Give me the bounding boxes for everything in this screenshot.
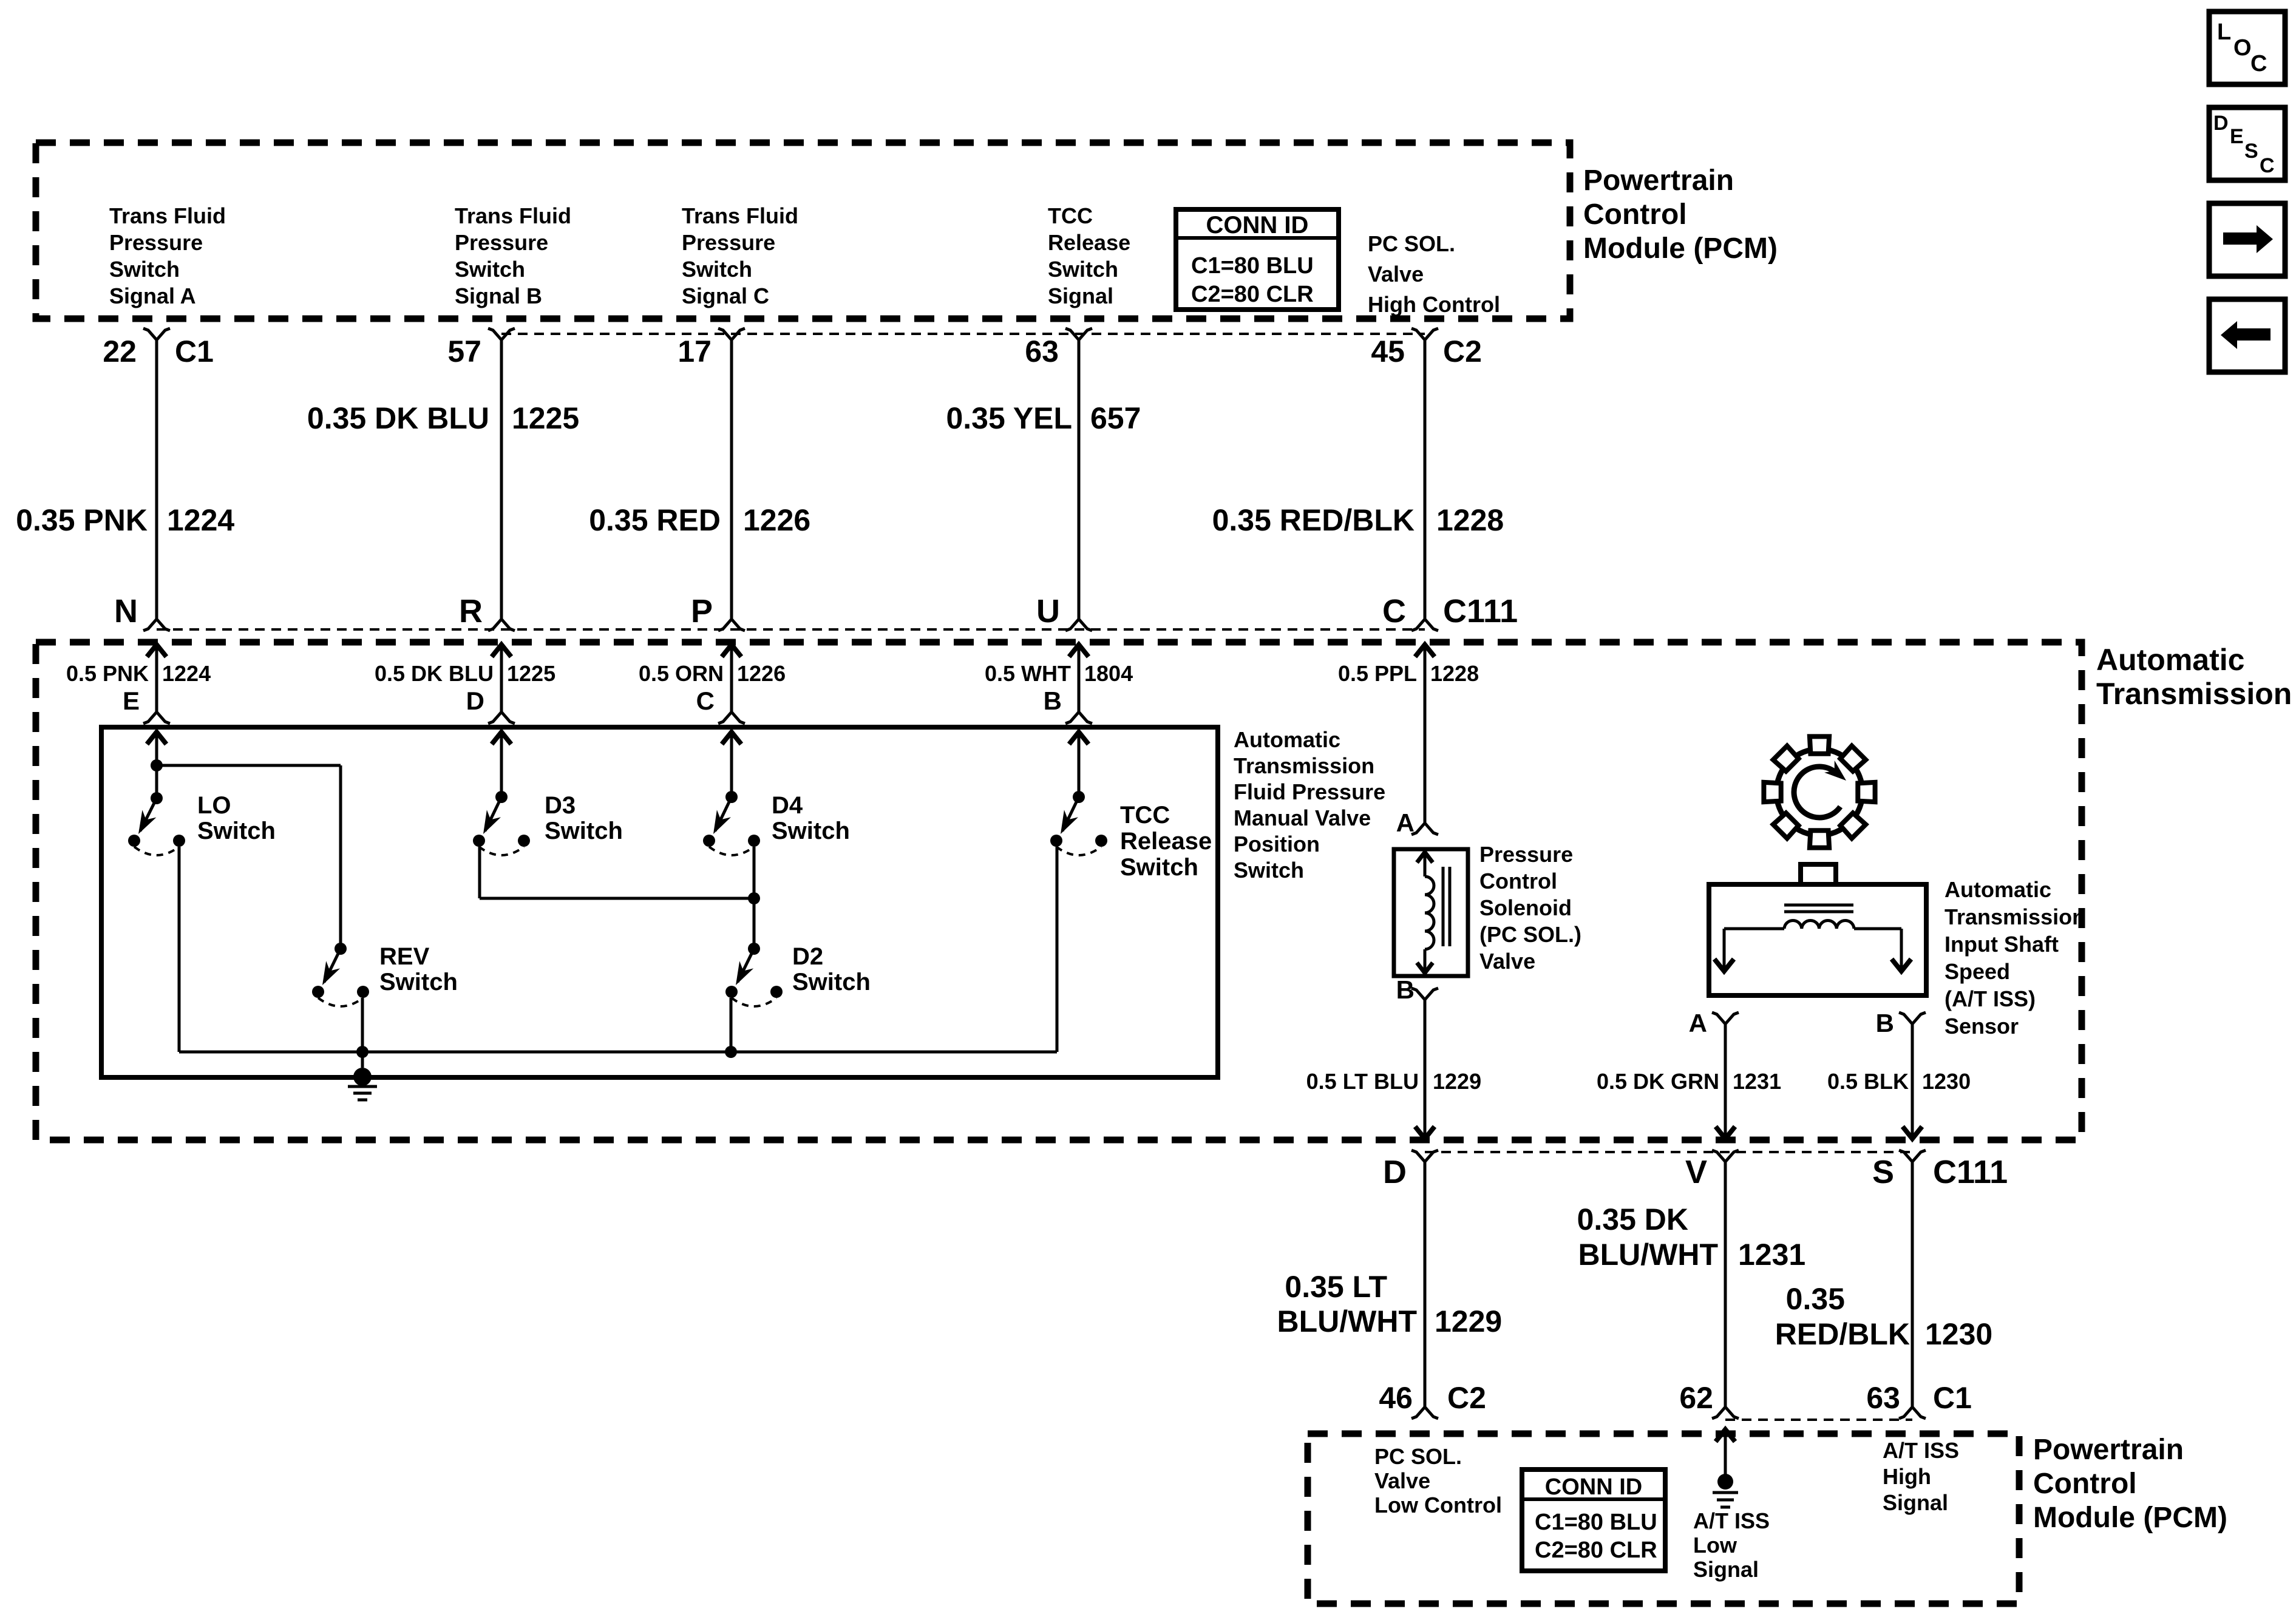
svg-text:0.35 YEL: 0.35 YEL	[946, 401, 1072, 435]
svg-text:Signal A: Signal A	[109, 283, 196, 308]
svg-text:C: C	[1382, 593, 1406, 629]
svg-text:D: D	[1383, 1154, 1407, 1190]
svg-text:63: 63	[1866, 1381, 1900, 1415]
svg-text:Position: Position	[1234, 832, 1320, 856]
svg-text:0.5 PNK: 0.5 PNK	[66, 661, 149, 686]
svg-text:0.35 DK: 0.35 DK	[1577, 1202, 1688, 1236]
svg-text:Pressure: Pressure	[682, 230, 775, 255]
svg-text:A/T ISS: A/T ISS	[1883, 1438, 1959, 1463]
svg-text:1226: 1226	[743, 503, 810, 537]
svg-text:B: B	[1044, 686, 1062, 715]
svg-text:U: U	[1036, 593, 1060, 629]
svg-text:0.35 RED/BLK: 0.35 RED/BLK	[1212, 503, 1415, 537]
svg-text:Switch: Switch	[109, 257, 180, 282]
svg-text:D2: D2	[792, 943, 823, 970]
svg-text:1228: 1228	[1436, 503, 1504, 537]
svg-text:TCC: TCC	[1048, 203, 1093, 228]
svg-text:Switch: Switch	[772, 818, 850, 844]
svg-text:1231: 1231	[1738, 1238, 1805, 1272]
svg-text:High Control: High Control	[1368, 292, 1500, 317]
svg-text:Release: Release	[1048, 230, 1130, 255]
svg-text:A/T ISS: A/T ISS	[1693, 1508, 1770, 1533]
svg-text:Low Control: Low Control	[1374, 1493, 1502, 1517]
svg-text:Manual Valve: Manual Valve	[1234, 805, 1371, 830]
svg-text:S: S	[1872, 1154, 1894, 1190]
svg-text:Switch: Switch	[682, 257, 752, 282]
svg-text:TCC: TCC	[1120, 802, 1170, 829]
svg-text:Switch: Switch	[545, 818, 623, 844]
svg-text:Release: Release	[1120, 828, 1212, 855]
svg-text:Automatic: Automatic	[1234, 727, 1340, 752]
svg-text:R: R	[459, 593, 483, 629]
svg-text:C1: C1	[175, 334, 214, 368]
svg-text:C111: C111	[1933, 1154, 2008, 1190]
svg-text:Input Shaft: Input Shaft	[1944, 932, 2059, 957]
svg-text:C2=80 CLR: C2=80 CLR	[1535, 1537, 1657, 1563]
svg-text:C: C	[2260, 154, 2275, 177]
svg-text:0.5 WHT: 0.5 WHT	[985, 661, 1071, 686]
svg-text:57: 57	[447, 334, 481, 368]
svg-text:1229: 1229	[1433, 1069, 1481, 1094]
svg-text:Signal: Signal	[1883, 1490, 1948, 1515]
svg-text:Switch: Switch	[455, 257, 525, 282]
svg-text:45: 45	[1371, 334, 1405, 368]
svg-text:E: E	[2230, 125, 2244, 148]
svg-text:Transmission: Transmission	[2096, 677, 2292, 711]
svg-text:Switch: Switch	[379, 969, 458, 995]
svg-text:Valve: Valve	[1479, 949, 1535, 974]
svg-text:Transmission: Transmission	[1234, 753, 1374, 778]
svg-text:1229: 1229	[1435, 1304, 1502, 1338]
svg-text:C: C	[696, 686, 715, 715]
svg-text:D3: D3	[545, 792, 576, 819]
svg-text:BLU/WHT: BLU/WHT	[1578, 1238, 1719, 1272]
svg-text:Pressure: Pressure	[455, 230, 548, 255]
svg-text:Signal C: Signal C	[682, 283, 769, 308]
svg-text:1225: 1225	[512, 401, 579, 435]
svg-text:Speed: Speed	[1944, 959, 2010, 984]
svg-text:Low: Low	[1693, 1533, 1737, 1558]
svg-text:Control: Control	[1583, 198, 1687, 231]
svg-text:0.35 DK BLU: 0.35 DK BLU	[307, 401, 489, 435]
svg-text:Valve: Valve	[1374, 1468, 1430, 1493]
svg-text:High: High	[1883, 1464, 1931, 1489]
svg-text:PC SOL.: PC SOL.	[1368, 231, 1455, 256]
svg-text:A: A	[1396, 808, 1415, 837]
svg-text:0.5 DK GRN: 0.5 DK GRN	[1597, 1069, 1719, 1094]
svg-text:Signal: Signal	[1048, 283, 1113, 308]
svg-text:N: N	[114, 593, 138, 629]
svg-text:0.5 DK BLU: 0.5 DK BLU	[375, 661, 494, 686]
svg-text:D4: D4	[772, 792, 803, 819]
svg-text:Fluid Pressure: Fluid Pressure	[1234, 779, 1385, 804]
svg-text:22: 22	[103, 334, 137, 368]
svg-text:1224: 1224	[167, 503, 234, 537]
svg-text:1226: 1226	[737, 661, 786, 686]
svg-text:C111: C111	[1443, 593, 1518, 629]
svg-text:0.35 LT: 0.35 LT	[1285, 1270, 1387, 1304]
svg-text:63: 63	[1025, 334, 1059, 368]
svg-text:Switch: Switch	[792, 969, 871, 995]
svg-text:Solenoid: Solenoid	[1479, 895, 1572, 920]
svg-text:0.35 RED: 0.35 RED	[589, 503, 721, 537]
svg-text:Valve: Valve	[1368, 262, 1424, 286]
svg-text:C2=80 CLR: C2=80 CLR	[1191, 282, 1314, 307]
svg-text:Sensor: Sensor	[1944, 1014, 2019, 1039]
svg-text:Control: Control	[2033, 1468, 2137, 1500]
svg-text:1231: 1231	[1733, 1069, 1781, 1094]
svg-text:0.5 LT BLU: 0.5 LT BLU	[1306, 1069, 1419, 1094]
svg-text:(A/T ISS): (A/T ISS)	[1944, 986, 2036, 1011]
svg-text:B: B	[1876, 1009, 1894, 1037]
svg-text:PC SOL.: PC SOL.	[1374, 1444, 1462, 1469]
svg-text:D: D	[2213, 112, 2229, 135]
svg-text:0.35: 0.35	[1786, 1282, 1845, 1316]
svg-text:C: C	[2250, 51, 2267, 76]
svg-text:O: O	[2233, 35, 2252, 61]
svg-text:1804: 1804	[1084, 661, 1133, 686]
svg-text:Switch: Switch	[197, 818, 276, 844]
svg-text:Automatic: Automatic	[1944, 877, 2051, 902]
svg-text:0.5 ORN: 0.5 ORN	[639, 661, 724, 686]
svg-text:CONN ID: CONN ID	[1545, 1474, 1642, 1500]
svg-text:CONN ID: CONN ID	[1206, 212, 1309, 239]
svg-text:Control: Control	[1479, 869, 1557, 893]
svg-text:Switch: Switch	[1120, 854, 1198, 881]
svg-text:Transmission: Transmission	[1944, 904, 2085, 929]
svg-text:A: A	[1689, 1009, 1707, 1037]
svg-text:0.35 PNK: 0.35 PNK	[16, 503, 148, 537]
svg-text:Signal B: Signal B	[455, 283, 542, 308]
svg-text:RED/BLK: RED/BLK	[1775, 1317, 1910, 1351]
svg-text:1228: 1228	[1430, 661, 1479, 686]
svg-text:L: L	[2217, 19, 2231, 45]
svg-text:1230: 1230	[1922, 1069, 1971, 1094]
svg-text:REV: REV	[379, 943, 430, 970]
svg-text:E: E	[123, 686, 140, 715]
svg-text:17: 17	[678, 334, 712, 368]
svg-text:1224: 1224	[162, 661, 211, 686]
svg-text:C2: C2	[1447, 1381, 1486, 1415]
svg-text:Powertrain: Powertrain	[1583, 164, 1734, 197]
svg-text:LO: LO	[197, 792, 231, 819]
svg-text:Pressure: Pressure	[109, 230, 203, 255]
svg-text:Switch: Switch	[1048, 257, 1118, 282]
svg-text:BLU/WHT: BLU/WHT	[1277, 1304, 1418, 1338]
svg-text:C1=80 BLU: C1=80 BLU	[1191, 253, 1314, 279]
svg-text:C1: C1	[1933, 1381, 1972, 1415]
svg-text:Pressure: Pressure	[1479, 842, 1573, 867]
svg-text:Automatic: Automatic	[2096, 643, 2244, 677]
svg-text:(PC SOL.): (PC SOL.)	[1479, 922, 1581, 947]
svg-text:657: 657	[1090, 401, 1141, 435]
svg-text:Trans Fluid: Trans Fluid	[109, 203, 226, 228]
svg-text:D: D	[466, 686, 484, 715]
svg-text:C1=80 BLU: C1=80 BLU	[1535, 1510, 1657, 1535]
svg-text:Switch: Switch	[1234, 858, 1304, 883]
svg-text:1225: 1225	[507, 661, 555, 686]
svg-text:0.5 PPL: 0.5 PPL	[1338, 661, 1417, 686]
svg-text:C2: C2	[1443, 334, 1482, 368]
svg-text:0.5 BLK: 0.5 BLK	[1827, 1069, 1909, 1094]
svg-text:Powertrain: Powertrain	[2033, 1434, 2184, 1466]
svg-text:S: S	[2244, 140, 2258, 163]
svg-text:46: 46	[1379, 1381, 1413, 1415]
svg-text:Signal: Signal	[1693, 1557, 1759, 1582]
svg-text:V: V	[1685, 1154, 1707, 1190]
svg-text:Trans Fluid: Trans Fluid	[682, 203, 798, 228]
svg-text:62: 62	[1679, 1381, 1713, 1415]
svg-text:Module (PCM): Module (PCM)	[2033, 1502, 2227, 1534]
svg-text:P: P	[691, 593, 713, 629]
svg-text:Module (PCM): Module (PCM)	[1583, 232, 1778, 265]
svg-text:1230: 1230	[1925, 1317, 1992, 1351]
svg-text:Trans Fluid: Trans Fluid	[455, 203, 571, 228]
